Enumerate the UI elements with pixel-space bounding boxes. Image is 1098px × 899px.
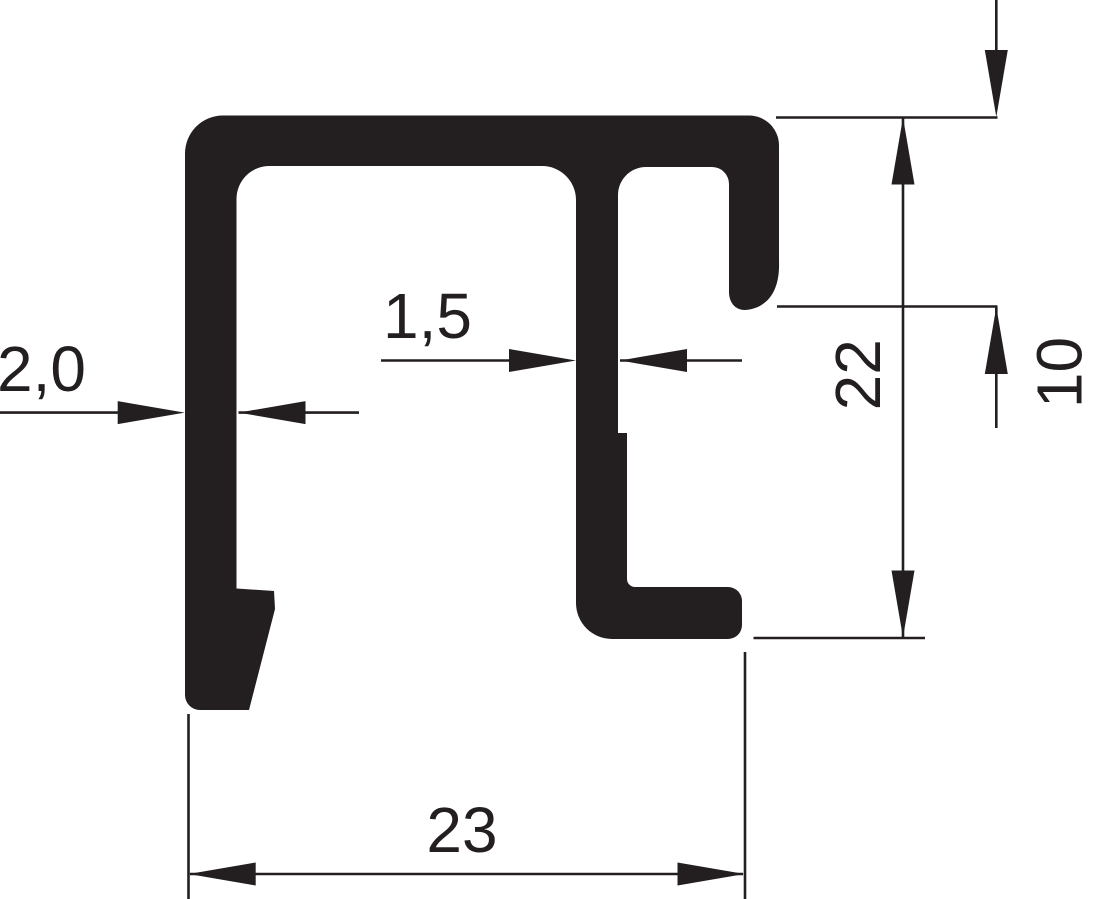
dimension 23 : extension line left (187, 714, 190, 899)
dimension 1,5 : left arrowhead (509, 349, 576, 372)
dimension 22 : top arrowhead (892, 118, 915, 185)
dimension 2,0 : right leader line (239, 411, 360, 414)
dimension 2,0 : right arrowhead (239, 401, 306, 424)
dimension 23 : left arrowhead (189, 863, 256, 886)
dimension 1,5 : left leader line (381, 359, 520, 362)
svg-text:2,0: 2,0 (0, 333, 86, 405)
svg-text:1,5: 1,5 (383, 280, 472, 352)
dimension 10 : extension line (shared hook bottom) (777, 305, 998, 308)
dimension 23 : dimension line (190, 873, 743, 876)
dimension 22 : extension line bottom (754, 637, 926, 640)
dimension 22 : bottom arrowhead (892, 571, 915, 638)
dimension 1,5 : right arrowhead (620, 349, 687, 372)
dimension 2,0 : left arrowhead (118, 401, 185, 424)
aluminium profile cross-section (185, 115, 779, 710)
dimension 23 : right arrowhead (678, 863, 745, 886)
dimension 10 : lower leader line (995, 307, 998, 428)
svg-text:22: 22 (822, 339, 894, 410)
dimension 22 : extension line top (776, 116, 998, 119)
dimension 10 : lower arrowhead (985, 307, 1008, 374)
svg-text:10: 10 (1024, 337, 1096, 408)
dimension 22 : dimension line (902, 118, 905, 637)
dimension 10 : upper arrowhead (985, 50, 1008, 117)
dimension 23 : extension line right (744, 652, 747, 899)
svg-text:23: 23 (426, 794, 497, 866)
dimension 2,0 : left leader line (0, 411, 130, 414)
dimension 10 : upper leader line (995, 0, 998, 60)
dimension 1,5 : right leader line (620, 359, 742, 362)
